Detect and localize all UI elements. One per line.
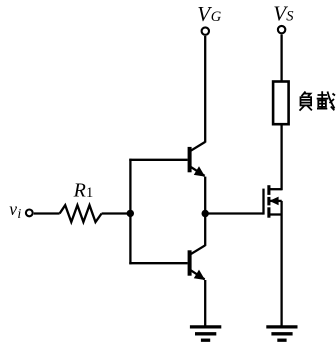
svg-text:v: v [9, 199, 17, 219]
wire Q1 collector to VG [204, 36, 206, 143]
node B (gate drive node dot) [202, 210, 209, 217]
terminal VG [202, 27, 209, 34]
wire resistor to node A [102, 212, 132, 214]
label R1 [73, 180, 94, 202]
wire input to resistor [34, 212, 60, 214]
MOSFET M1 drain lead [269, 125, 282, 190]
terminal v_i [26, 210, 33, 217]
wire top base [129, 159, 187, 161]
label v_i [9, 199, 21, 222]
wire Q1 emitter to node B [204, 177, 206, 215]
node A (input node dot) [127, 210, 134, 217]
svg-text:G: G [211, 9, 222, 25]
label VS [273, 1, 294, 25]
svg-text:1: 1 [86, 185, 93, 201]
wire node B to gate [205, 212, 263, 214]
label VG [197, 2, 222, 26]
ground left [190, 327, 221, 340]
MOSFET M1 gate bar [262, 189, 264, 215]
label 負載 (load) drawn strokes [300, 91, 336, 110]
transistor Q1 [188, 142, 206, 177]
svg-text:R: R [73, 180, 86, 202]
terminal VS [278, 26, 285, 33]
wire left rail vertical [129, 159, 131, 265]
MOSFET M1 channel segments [267, 185, 270, 218]
transistor Q2 [188, 245, 206, 280]
wire Q2 emitter to ground [204, 280, 206, 326]
wire Q2 collector to node B [204, 213, 206, 246]
MOSFET M1 body arrow [269, 197, 281, 215]
svg-text:i: i [17, 207, 21, 222]
ground right [266, 327, 297, 340]
svg-text:S: S [286, 9, 294, 25]
load resistor (rect) [273, 82, 289, 125]
wire bottom base [129, 262, 187, 264]
wire VS to load [280, 35, 282, 82]
resistor R1 [60, 205, 102, 222]
MOSFET M1 source lead [269, 215, 282, 327]
